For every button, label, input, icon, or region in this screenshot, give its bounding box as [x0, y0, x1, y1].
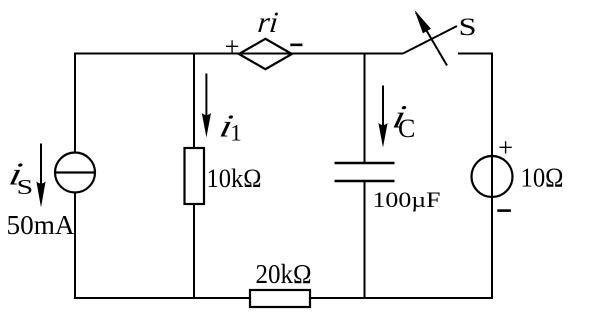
- svg-text:S: S: [17, 175, 34, 199]
- source 10ohm circle: [472, 156, 513, 197]
- capacitor C plates: [335, 163, 395, 181]
- wire top right: [458, 53, 493, 55]
- wire 10k branch lower: [193, 204, 195, 299]
- resistor 10k body: [185, 148, 205, 204]
- wire right branch: [491, 53, 493, 300]
- svg-text:S: S: [459, 13, 477, 41]
- arrow iS: [36, 144, 45, 208]
- wire left branch lower: [74, 193, 76, 300]
- svg-text:1: 1: [230, 121, 242, 146]
- wire bottom rail right: [310, 297, 493, 299]
- wire top rail: [74, 53, 403, 55]
- label minus left: [290, 44, 302, 47]
- arrow iC: [378, 86, 387, 148]
- current source IS bar: [55, 171, 95, 173]
- wire bottom rail left: [74, 297, 250, 299]
- switch S blade: [403, 26, 457, 54]
- wire capacitor branch upper: [364, 53, 366, 164]
- switch S actuation arrow: [415, 10, 448, 66]
- label iS: [6, 157, 33, 199]
- svg-text:10kΩ: 10kΩ: [207, 163, 262, 193]
- label i1: [217, 109, 242, 145]
- svg-text:50mA: 50mA: [7, 209, 75, 240]
- svg-text:100µF: 100µF: [373, 187, 441, 212]
- label iC: [390, 99, 416, 143]
- svg-text:ri: ri: [256, 7, 279, 39]
- current source IS circle: [55, 153, 95, 193]
- svg-text:10Ω: 10Ω: [521, 163, 564, 193]
- wire 10k branch upper: [193, 53, 195, 149]
- label minus right: [497, 209, 511, 212]
- svg-text:20kΩ: 20kΩ: [256, 258, 312, 289]
- resistor 20k body: [250, 290, 310, 307]
- svg-text:+: +: [498, 132, 513, 162]
- dependent source ri diamond: [239, 39, 292, 69]
- svg-text:+: +: [225, 31, 240, 61]
- arrow i1: [202, 74, 211, 138]
- svg-text:C: C: [398, 114, 415, 143]
- wire capacitor branch lower: [364, 181, 366, 299]
- wire left branch upper: [74, 53, 76, 154]
